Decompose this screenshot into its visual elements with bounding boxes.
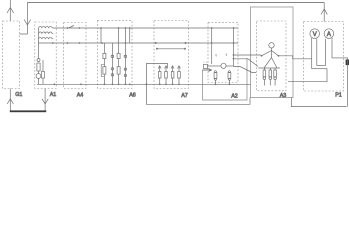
wire meter link U2 (312, 68, 327, 70)
wire П1 to motor (208, 65, 221, 67)
box A1 (dashed) (35, 22, 56, 89)
box A2 inner (dashed) (208, 22, 238, 82)
box A7 (dashed) (154, 21, 189, 89)
wire right edge drop (347, 58, 349, 107)
resistor A3 foot 2 (269, 68, 272, 86)
inductor A1 winding 2 (39, 32, 54, 34)
svg-text:A1: A1 (50, 92, 57, 98)
meter A in P1 (324, 29, 334, 39)
lamp A1 chain top circle (37, 59, 40, 62)
wire A1 winding left leg (38, 28, 40, 59)
wire A1 bottom lead with down arrow (42, 89, 48, 111)
wire bottom right bracket (291, 98, 346, 107)
wire A6 left riser (100, 28, 102, 43)
resistor A2 left with pins (214, 71, 217, 85)
svg-text:V: V (313, 32, 317, 38)
node A4 bus dots (52, 27, 80, 44)
wire top feeder line (27, 2, 324, 4)
person A3 legs (264, 58, 277, 69)
wire motor to riser (226, 65, 233, 67)
resistor A1 chain (37, 63, 40, 71)
node A6 bottom bus dots (104, 83, 131, 85)
box A2 outer (solid) (203, 58, 248, 100)
box A6 (dashed) (98, 21, 133, 89)
arrester A7 chain 1 (158, 66, 161, 85)
resistor A1 second branch (42, 60, 45, 84)
wire meter link U1 (317, 65, 326, 67)
node bottom bus extra dots (54, 83, 231, 85)
wire A2 to A3 mid link with diagonal (234, 59, 259, 67)
inductor A1 winding 3 (39, 37, 54, 39)
wire A3 platform (258, 67, 280, 69)
svg-text:A7: A7 (181, 93, 188, 99)
arrester A7 chain 4 (178, 66, 181, 85)
switch A4 disconnect on bus L1 (69, 26, 75, 29)
wire A1 chain to bus (38, 71, 40, 84)
node A2 link dots (233, 54, 235, 60)
wire ground loop from A7 under A2 to A3 (146, 63, 250, 104)
wire left input riser with up arrow (7, 0, 14, 21)
svg-text:A2: A2 (231, 94, 238, 100)
wire A2 right riser (233, 28, 235, 67)
wire A2 left riser (211, 28, 213, 64)
electrode right edge blob (346, 60, 349, 66)
breaker A6 chain 3: resistors (117, 28, 120, 84)
resistor A3 foot 3 (274, 68, 277, 86)
wire A3 to meter wide link (288, 69, 327, 82)
box P1 (dashed) (304, 22, 344, 92)
wire A meter outer lead to electrode (332, 57, 348, 59)
node hand dots (261, 55, 280, 57)
bus L1 top phase bus (53, 27, 238, 29)
breaker A6 chain 1: resistor, parallel loop resistor (101, 43, 106, 84)
svg-text:A6: A6 (129, 93, 136, 99)
bus N bottom return bus (37, 83, 251, 85)
motor A2 circle (221, 63, 226, 68)
wire A7 gap jumper (146, 63, 167, 68)
svg-text:A3: A3 (280, 93, 287, 99)
wire feeder drop into G1 with down arrow (20, 3, 31, 35)
resistor A3 foot 1 (263, 68, 266, 86)
node A7 bottom bus dots (146, 83, 180, 85)
person A3 body (271, 48, 273, 58)
svg-text:G1: G1 (15, 92, 22, 98)
arrester A7 chain 2 (165, 66, 168, 85)
electrode bottom bar (10, 110, 46, 112)
wire A2 to A3 hand link (234, 54, 262, 56)
node A7 bus L2 dots (155, 42, 187, 44)
label A2 riser tick marks (215, 54, 227, 57)
arrow A2 entry (203, 69, 212, 72)
node A6 chain top dots (118, 27, 127, 29)
breaker A6 chain 2: contact circles (111, 43, 114, 84)
person A3 arms (262, 51, 279, 56)
svg-text:P1: P1 (335, 93, 342, 99)
person A3 head (269, 43, 274, 48)
wire G1 bottom lead with up arrow (7, 89, 13, 111)
inductor A1 winding 1 (39, 26, 54, 28)
breaker A6 chain 4: contact circles (124, 28, 127, 84)
wire A6 right riser (129, 28, 131, 43)
arrester A7 chain 3 (171, 66, 174, 85)
svg-text:A: A (327, 32, 331, 38)
box A4 (dashed) (64, 23, 86, 89)
wire A3 right hand to meters (279, 56, 312, 59)
box A3 inner (dashed) (257, 21, 287, 91)
node A6 bus dots (100, 27, 131, 44)
wire A2 to A3 low diagonal (234, 67, 257, 73)
wire V meter leads (312, 38, 317, 69)
wire A meter leads (326, 38, 333, 66)
bus L2 lower phase bus (39, 42, 239, 44)
lamp A1 chain bottom circle (36, 74, 41, 79)
box A3 outer (solid) (251, 7, 294, 98)
label П1 tick (204, 62, 207, 64)
svg-text:A4: A4 (77, 93, 84, 99)
wire riser to P1 with up arrow (321, 3, 327, 22)
relay П1 box in A2 (204, 65, 208, 69)
node A2 bus dots (211, 27, 235, 44)
wire A7 measurement line with end dots (156, 48, 186, 50)
box G1 (dashed) (3, 21, 20, 89)
resistor A2 right with pins (228, 71, 231, 85)
meter V in P1 (310, 29, 320, 39)
